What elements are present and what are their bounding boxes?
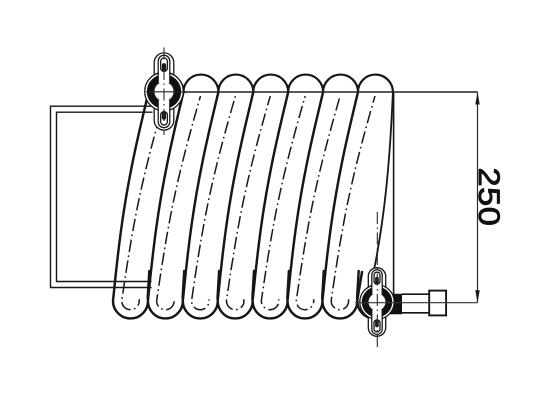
outlet pipe <box>402 294 429 313</box>
outlet fitting vertical centerline <box>376 212 378 348</box>
inlet fitting horizontal centerline <box>146 91 186 93</box>
inlet fitting ear slot channels and slots <box>158 55 170 83</box>
outlet fitting horizontal centerline <box>355 302 478 304</box>
coil outlet vertical tube edge <box>393 92 395 297</box>
outlet fitting ear slot channels and slots <box>372 270 382 295</box>
wire: coil top line + dimension extension line <box>146 91 478 93</box>
dimension line 250 <box>477 92 479 303</box>
inlet fitting bore <box>154 81 175 102</box>
wire: inlet pipe inner rectangle <box>57 112 153 281</box>
last coil strand into outlet fitting <box>374 92 393 270</box>
inlet fitting flange ears <box>154 53 174 76</box>
inlet fitting flange outline <box>145 72 184 111</box>
outlet fitting bore <box>368 293 386 311</box>
outlet fitting flange outline <box>360 285 394 319</box>
wire: inlet pipe outer rectangle <box>51 106 153 287</box>
dimension arrow up <box>475 92 479 105</box>
inlet fitting vertical centerline <box>163 48 165 136</box>
dimension arrow down <box>475 290 479 303</box>
coil top bend arcs <box>149 75 393 92</box>
outlet fitting flange ears <box>368 268 385 288</box>
outlet pipe hub (solid) <box>388 294 402 314</box>
coil tube centerlines (dash-dot) <box>122 96 166 310</box>
last bottom U bend (behind outlet fitting) <box>357 271 392 318</box>
outlet fitting body ring <box>365 290 389 314</box>
svg-text:250: 250 <box>472 168 506 227</box>
coil front strands with bottom U bends <box>113 92 359 318</box>
outlet pipe nut <box>429 291 446 316</box>
inlet fitting body ring <box>150 78 177 105</box>
